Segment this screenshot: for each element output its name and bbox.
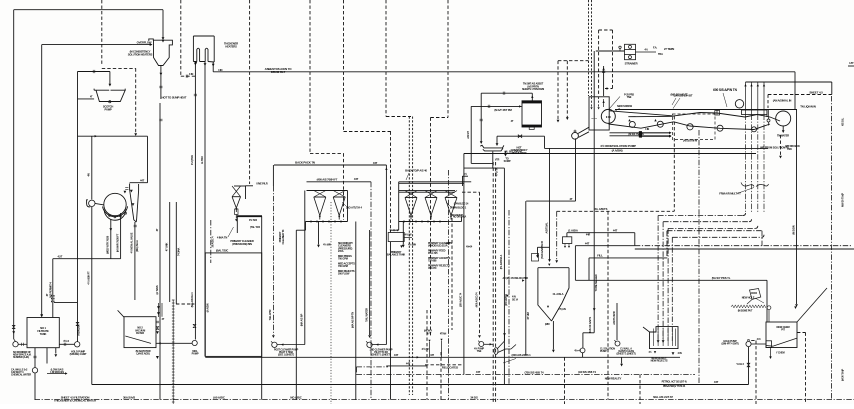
wire riser x77.5 filtrate inlet [77,303,79,342]
wire riser x463.9 [463,154,465,375]
high consistency funnel [149,39,173,66]
svg-text:(SHEET 1 (SHEET): (SHEET 1 (SHEET) [372,354,391,357]
svg-text:(140 S/S 80/4 BT: (140 S/S 80/4 BT [674,94,693,98]
svg-text:44T: 44T [394,353,399,357]
wire top feed header y10 [14,9,163,11]
svg-text:(NO A/T) T/A 4: (NO A/T) T/A 4 [346,206,362,210]
couch roll 2 [657,121,663,127]
cluster-A cone 2 [333,196,345,198]
wire strainer drop x594.2 long [593,51,595,333]
svg-text:44T: 44T [613,228,618,232]
svg-text:BACK TO/P A/S 40: BACK TO/P A/S 40 [405,169,427,173]
wire single cone riser x245.5 [245,186,247,199]
arrow 4IN SO14 on dashed pair [506,295,508,297]
svg-text:700 GPM: 700 GPM [338,257,348,261]
wire riser x831.8 to sheet4.5 [831,82,833,95]
wire dash-dot x448.6 [448,170,450,400]
svg-text:(A A/S/N): (A A/S/N) [612,149,623,153]
wire pump2 feed x369.6 [369,230,371,335]
svg-text:SHEETS 1 TNN RO/M: SHEETS 1 TNN RO/M [522,88,544,91]
cluster-B cone 2 [425,197,437,199]
svg-text:4 FT: 4 FT [427,332,432,335]
wire strainer riser x603.6 [603,66,605,96]
svg-text:44T: 44T [373,161,378,165]
svg-text:TRA: TRA [658,52,663,56]
wire thick tray top y216.2 [237,215,262,217]
svg-text:P1-T/24: P1-T/24 [249,219,258,222]
pit feed chute diagonal [797,288,827,322]
wire asbestos line to drum filter y71.8 [213,71,795,73]
left small arrows near y357 [428,340,430,342]
wire dashed jog y30 [599,29,613,31]
wire dashed x598.6 [598,30,600,96]
wire pump1 drop x575.5 [575,138,577,201]
wire cluster-B feed2 y183.3 [399,182,464,184]
wire vessel top stub x532.3 [531,93,533,101]
svg-text:(MA) S/A A: (MA) S/A A [135,240,139,252]
svg-text:NEW REALITY: NEW REALITY [605,377,622,381]
wire long solid y384.5 [92,384,749,386]
svg-text:(94 S/S 45/8 74: (94 S/S 45/8 74 [578,370,596,374]
wire mol pump suction y343.3 [156,342,193,344]
wire dashed x612.5 [612,30,614,89]
wire dashed pair into filtrate x51.5 x54 [51,295,53,303]
machine roll 2 [687,124,693,130]
thickener with two pockets [193,36,214,62]
no1 filtrate tank [27,318,59,348]
svg-text:27 T/M/N: 27 T/M/N [664,47,674,51]
wire loop y245.7 solid [575,245,634,247]
machine top circle [735,100,743,108]
strainer assembly [596,50,625,52]
wire riser x525.8 [525,201,527,355]
wire loop left drop x566.9 [566,233,568,237]
machine suction pipes below [745,115,747,214]
wire second header y44.6 [42,44,151,46]
machine wire line [674,113,780,122]
wire riser x347.5 [347,191,349,222]
wire dashed x427 [426,310,428,400]
svg-text:(MED WTR 76/26: (MED WTR 76/26 [106,235,110,254]
wire tank top feed line y280.3 [575,279,767,281]
svg-text:215A: 215A [338,249,344,253]
wire dashed x441 [440,352,442,400]
wire dashed jog y88.5 [605,88,613,90]
wire pit pump drop x748.5 [748,347,750,385]
wire dashed jog y76.2 [181,75,196,77]
wire cluster-B feed y181.8 [399,181,472,183]
wire dash-dot long y374.5 [357,374,696,376]
wire dashed x805.5 [805,333,807,405]
wire dashed stub y304 [176,303,194,305]
wire pan feed header y71.5 [78,71,110,73]
vat internal dashes and arrows [591,97,593,107]
wire dash-dot x831.5 right edge [831,96,833,400]
valve on x195.4 [193,324,196,327]
svg-text:A/S/TS/AL: A/S/TS/AL [544,222,548,234]
wire sol pump riser x582.9 [582,333,584,348]
wire funnel downcomer x163 [162,10,164,38]
svg-text:74 3/4A: 74 3/4A [177,248,181,256]
valve on x76 [76,322,79,325]
svg-text:A/S 9/T: A/S 9/T [466,131,470,139]
svg-text:(300 A/S/C 74: (300 A/S/C 74 [459,292,463,307]
wire step y168.1 under regulator [464,167,505,169]
svg-text:(M 30 T/A(P: (M 30 T/A(P [841,368,845,381]
svg-text:4½ WH: 4½ WH [323,243,331,247]
wire riser x504.4 [503,168,505,384]
svg-text:30 A/S/C 4: 30 A/S/C 4 [211,236,215,248]
wire cluster-B tray y221.5 [399,221,447,223]
svg-text:Y CHEM: Y CHEM [776,352,785,355]
svg-text:(700 S/S 45/5 74: (700 S/S 45/5 74 [525,370,545,374]
wire regulator feed x471.2 [470,106,472,163]
wire chute step y182.7 [130,182,148,184]
drum filter wire line [610,111,674,116]
machine lower felt line [674,122,770,130]
wire dashed x249.6 [249,0,251,184]
svg-text:600 S/S A/F/N TN: 600 S/S A/F/N TN [713,88,737,92]
wire riser x304.8 [304,191,306,345]
svg-text:4 IN: 4 IN [645,127,649,131]
svg-text:NEW SCREW: NEW SCREW [617,104,633,108]
svg-text:4T: 4T [570,197,573,201]
wire right edge tick x851 [848,65,854,67]
svg-text:(SEE 1 (SHEET): (SEE 1 (SHEET) [278,354,294,357]
wire dashed jog y116.5 [386,116,411,118]
svg-text:(TAL T/24: (TAL T/24 [250,226,261,229]
wire dashed x608 [607,211,609,399]
svg-text:727-888: 727-888 [428,259,437,263]
svg-text:BALANCE TANK: BALANCE TANK [387,253,406,257]
wire pan feed drop x109.9 [109,72,111,85]
wire box wall x147.5 [147,136,149,183]
wire small L x462.5 [462,176,464,186]
heater vessel with heavy bands [522,101,542,127]
svg-text:THICKENER & CHEMICAL WATER: THICKENER & CHEMICAL WATER [54,399,96,403]
svg-text:SO 14: SO 14 [512,298,519,301]
new chem pit [766,322,797,348]
valve on y136.2 [518,135,522,138]
svg-text:4½ (W: 4½ (W [421,347,429,351]
wire dashed y60.7 [558,60,589,62]
wire washer riser x91.8 [91,137,93,200]
svg-text:TAN OF A/S/TS: TAN OF A/S/TS [588,316,592,333]
svg-text:TAIL WTR: TAIL WTR [268,309,272,320]
svg-text:= = =: = = = [591,118,597,121]
svg-text:SUMPER (A.M.): SUMPER (A.M.) [13,356,29,359]
wire dashed KL line y211.3 [557,210,675,212]
svg-text:CHEMICAL WATER: CHEMICAL WATER [11,374,31,377]
big hopper tank [538,268,569,321]
svg-text:CL A/SLA: CL A/SLA [553,292,564,296]
svg-text:NEW HOLE: NEW HOLE [742,296,755,300]
wire R2 corner x575.4 [574,246,576,281]
wire dash-dot cleaner feed x273.4 [272,165,274,186]
svg-text:(400 A/S/C) 74: (400 A/S/C) 74 [474,292,478,308]
junction wye diagonals [498,334,517,353]
wire dashed drop x768 [767,95,769,109]
wire dashed jog y117.5 [431,117,449,119]
svg-text:4 IN: 4 IN [189,72,193,76]
svg-text:44T: 44T [354,177,359,181]
svg-text:BACK PACK TN: BACK PACK TN [295,161,315,165]
wire cluster-B lower feed2 y192.2 dashed tail [399,191,455,193]
machine roll 4 [752,127,757,132]
wire cluster-A feed y181.8 [307,181,372,183]
wire dashed x780.5 airwash [780,135,782,156]
lower felt line [609,122,674,128]
svg-text:FILL: FILL [597,254,603,258]
wire chute drain x134.9 [134,222,136,300]
wire hopper drain x553.4 [552,321,554,350]
drum filter drum circle [601,109,615,123]
svg-text:4.5T: 4.5T [849,61,854,65]
wire dashed x567.3 [566,61,568,118]
wire washer drop x120.6 [120,213,122,259]
svg-text:SUMP: SUMP [504,159,511,163]
svg-text:CLEANER TK: CLEANER TK [281,229,285,244]
wire elbow1 y215.5 [658,215,743,217]
wire cone overflow jog [246,185,254,187]
svg-text:4½ NEW AL VALVE: 4½ NEW AL VALVE [130,232,134,253]
svg-text:4N: 4N [87,173,91,176]
svg-text:4 IN: 4 IN [678,351,682,355]
machine press roll big [776,111,791,126]
wire jog y230.2 cluster-A [296,229,305,231]
wire machine area header y82 [746,81,832,83]
wire machine drop x796.5 [796,110,798,305]
svg-text:VTR: VTR [495,159,500,162]
wire dashed relocated y364.8 [425,364,464,366]
wire trough drain x492.8 [492,152,494,169]
svg-text:NGL A/S LS/T AT: NGL A/S LS/T AT [653,395,673,399]
hole pump [746,341,751,346]
decker vat arcs [103,206,128,216]
drum filter vat rectangle [589,97,609,130]
wire solution loop y232.7 [567,232,635,234]
wire tank feed x549.5 [549,148,551,259]
pump right of tank [75,342,80,347]
svg-text:Y/NE P/LR: Y/NE P/LR [256,182,268,186]
svg-text:(A0 A/S/C: (A0 A/S/C [213,395,225,399]
svg-text:(5A S/Y PKS TL: (5A S/Y PKS TL [712,276,731,280]
svg-text:(PRESSURE) BIN: (PRESSURE) BIN [232,242,252,246]
small box on hopper left wall [532,254,539,262]
svg-text:(4 MODULE) 215A: (4 MODULE) 215A [428,244,448,248]
cl wall pump [615,341,620,346]
wire dashed x386 upper [385,0,387,117]
wire vessel feed drop x481.2 [480,93,482,141]
wire dashed inlet x101.8 [101,0,103,66]
cl solution pump [580,348,585,353]
svg-text:4 PD TK: 4 PD TK [495,167,499,176]
wire dashed pair x409.3 x412.6 [408,117,410,396]
gland brackets [741,183,754,187]
wire dashed x640 bottom [639,375,641,405]
wire riser x390.5 lower [390,242,392,400]
svg-text:PUMP: PUMP [104,108,111,112]
wire vessel left feed y106.4 [471,105,521,107]
wire elbow2 y221.7 [663,221,749,223]
svg-text:700 GPM: 700 GPM [338,264,348,268]
wire riser x52.8 [52,259,54,318]
svg-text:(SPARE) 4 GMT: (SPARE) 4 GMT [70,352,87,356]
svg-text:(TAN A/S/R/W 30: (TAN A/S/R/W 30 [540,240,544,258]
tank inlet arrow [40,314,43,317]
svg-text:4T/AN: 4T/AN [440,332,447,335]
wire dashed x343.5 upper [343,0,345,132]
svg-text:(M A/T 45/T PM: (M A/T 45/T PM [494,108,512,112]
svg-text:(400 A/S 70/84 FT: (400 A/S 70/84 FT [317,177,338,181]
wire long east line y249 [635,248,854,250]
wire filtrate corner y302.6 [54,302,78,304]
wire tray drop x403.3 [402,222,404,245]
wire thickener drain x195.4 long [194,62,196,340]
svg-text:4½ (W: 4½ (W [405,233,412,237]
wire dashed x343.5 lower [343,153,345,220]
svg-text:Y-CH 2: Y-CH 2 [736,362,744,366]
svg-text:(P2 12/70/4: (P2 12/70/4 [504,294,508,306]
wire riser x355.8 [355,222,357,400]
svg-text:NO DRUM (A: NO DRUM (A [453,216,467,219]
leader to 300 label [503,359,516,364]
wire loop right drop x634.8 [634,233,636,246]
wire elbow4 y237.3 [672,236,761,238]
svg-text:(AN A/S/N/AL IN: (AN A/S/N/AL IN [773,99,792,103]
wire dash-dot x699 [698,130,700,385]
svg-text:PUMP: PUMP [600,350,607,353]
wire dash-dot drop x556.7 [556,211,558,260]
wire pump line y332.8 [583,332,594,334]
svg-text:4.5T: 4.5T [58,254,63,258]
svg-text:MW 30 T/A(P: MW 30 T/A(P [841,193,845,207]
wire dashed x558 [557,61,559,120]
wire dashed x448 upper [447,0,449,118]
pit small circle vent [767,306,771,310]
svg-text:HEATERS: HEATERS [225,44,237,48]
wire dashed pair x588.5 x591.5 [588,0,590,96]
svg-text:47 UNK: 47 UNK [165,243,169,252]
secondary balance small box [388,233,404,242]
wire connector x544.5 [544,136,546,148]
tank drain pump circle [32,368,37,373]
svg-text:RELOCATED: RELOCATED [442,366,458,370]
wire washer drop x110.8 [110,219,112,259]
svg-text:TO BE SEALED: TO BE SEALED [594,274,598,291]
flex hose zigzag [731,305,766,308]
machine suction header comb [742,110,768,115]
primary cleaner cone single [232,196,241,198]
valve on x748.5 [747,363,750,367]
pump left of tank [13,342,18,347]
wire dashed vent x180.8 [180,0,182,76]
pump to vat diagonals [578,127,589,137]
wire box wall x77.5 long [77,72,79,303]
wire fill inlet jog y247.3 [538,246,550,248]
svg-text:44T: 44T [140,178,145,182]
svg-text:4T UM: 4T UM [526,311,530,319]
discharge chute trapezoid [130,184,139,223]
cluster-A cone 1 [314,196,326,198]
wire dash-dot x667 upper [666,231,668,258]
wire dashed x674.3 [673,116,675,211]
wire loop drop x762 [761,231,763,246]
wire cluster-B lower feed y190.6 [399,190,455,192]
svg-text:FILTER: FILTER [136,331,144,335]
wire riser x767 upper [766,110,768,118]
svg-text:TANK: TANK [40,332,47,336]
wire y365.9 corner east [386,365,426,367]
svg-text:(SHEET 1 (SHEET): (SHEET 1 (SHEET) [617,353,636,356]
svg-text:F.A.: F.A. [653,46,658,50]
wire dashed sheet-4.5 y94.5 [768,94,832,96]
wire vessel feed drop x497 [496,136,498,143]
valve arrow stack left [12,325,15,328]
wire dash-dot x210.8 [210,220,212,263]
wire box left upper x237.3 [236,216,238,233]
svg-text:‖ ‖ ‖: ‖ ‖ ‖ [606,115,612,119]
svg-text:44T: 44T [585,241,590,245]
wire cluster-A feed2 y190.5 [307,190,348,192]
wire thickener drain x205 long [204,62,206,357]
svg-text:(TAN BLDG 14: (TAN BLDG 14 [454,203,469,206]
wire dashed pair x493.2 x495.6 [492,162,494,404]
wire dashed x564.5 bottom [564,357,566,404]
decker washer drum [104,193,126,215]
svg-text:HOT TO SUMP HEAT: HOT TO SUMP HEAT [162,96,187,100]
svg-text:TNE: TNE [627,96,632,99]
svg-text:44T: 44T [430,354,434,357]
svg-text:44T: 44T [406,362,411,366]
wire vessel top feed y93.2 [481,92,532,94]
tank bottom drops [34,348,36,368]
svg-text:4 IN/A TN: 4 IN/A TN [217,236,228,240]
wire loop y245.7 dash-dot east [635,245,851,247]
svg-text:(MM: (MM [545,323,550,326]
pump 4.5 [479,342,484,347]
svg-text:(1 A/S/A: (1 A/S/A [568,228,578,232]
sump arrow below trough [505,151,507,154]
wire riser x169.7 [169,202,171,302]
wire heater outlet y136.2 [497,135,545,137]
svg-text:4 IN: 4 IN [512,296,516,299]
wire pump feed x617 [616,303,618,340]
svg-text:4½ A/S/N FT: 4½ A/S/N FT [87,271,91,285]
svg-text:(M SOME PUT: (M SOME PUT [738,310,753,313]
wire elbow3 y228.4 [668,227,755,229]
machine suction pipes risers [745,82,747,110]
wire long riser x160 [159,103,161,400]
consistency regulator trough [480,145,504,151]
svg-text:H-TRU: H-TRU [200,156,204,164]
wire FILL line y257.9 [589,257,667,259]
wire drain riser x663.1 [662,222,664,341]
wire washer suction y258.7 [53,258,121,260]
decker pulley [89,200,95,206]
svg-text:H2 SUL: H2 SUL [841,117,845,126]
wire left main riser x13.7 [13,10,15,339]
wire dashed x479.5 relocated [479,192,481,335]
wire dashed x756 [755,341,757,405]
svg-text:NEW REJECTS: NEW REJECTS [651,359,668,363]
wire long cross line y357.3 [205,356,680,358]
svg-text:SOLUTION HEATERS: SOLUTION HEATERS [128,52,153,56]
machine small box on wire [715,111,720,116]
wire pump2 discharge riser x386.4 [385,165,387,345]
machine roll 3 [717,125,723,131]
svg-text:44T: 44T [714,380,719,384]
